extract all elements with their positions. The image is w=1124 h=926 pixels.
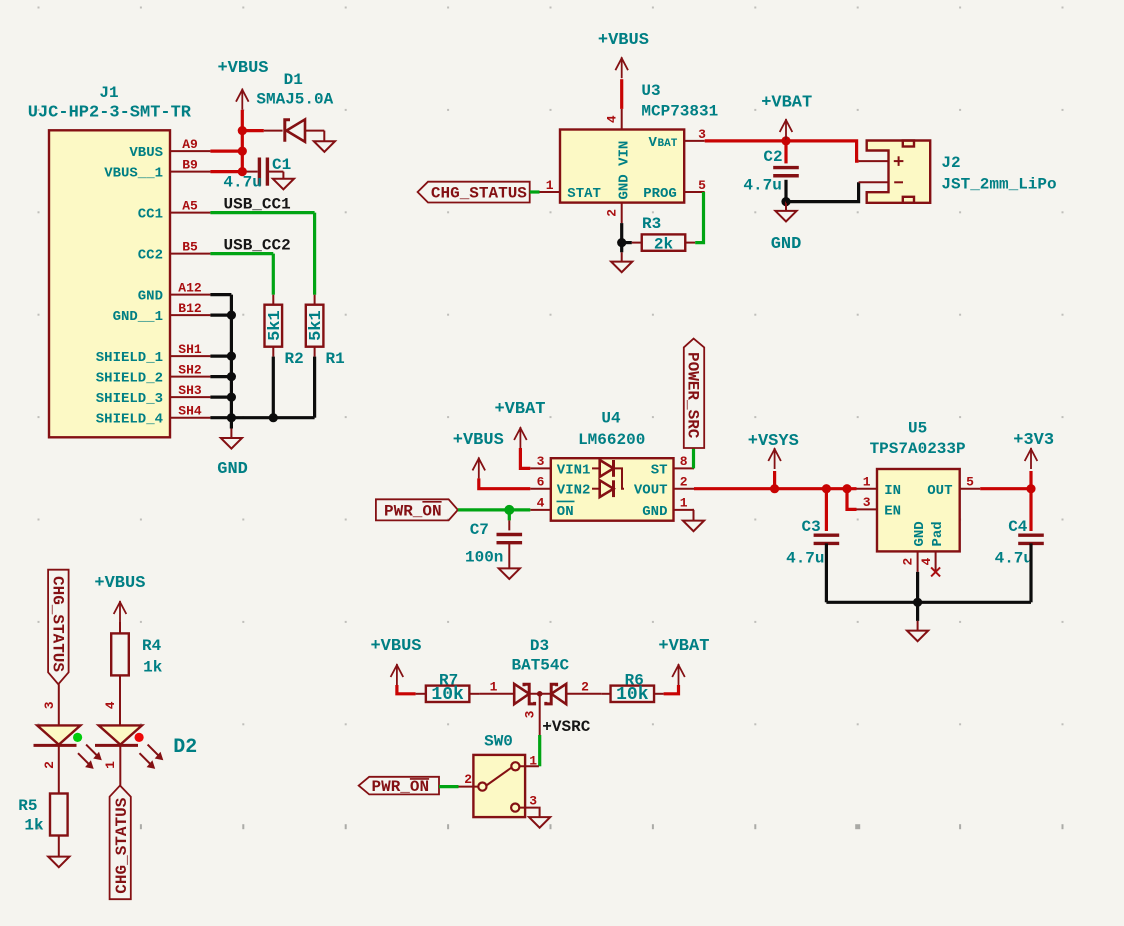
svg-text:SW0: SW0 xyxy=(484,733,513,751)
svg-text:+VBUS: +VBUS xyxy=(217,59,268,78)
svg-text:10k: 10k xyxy=(431,685,464,705)
svg-text:R1: R1 xyxy=(326,350,345,368)
svg-text:USB_CC1: USB_CC1 xyxy=(224,196,291,214)
svg-text:4.7u: 4.7u xyxy=(786,550,824,568)
svg-text:+VBAT: +VBAT xyxy=(494,400,545,419)
svg-text:D1: D1 xyxy=(284,71,303,89)
svg-text:VIN1: VIN1 xyxy=(557,462,591,478)
svg-text:R5: R5 xyxy=(18,797,37,815)
svg-text:4.7u: 4.7u xyxy=(223,174,261,192)
svg-text:2: 2 xyxy=(901,558,916,566)
svg-text:SMAJ5.0A: SMAJ5.0A xyxy=(256,91,333,109)
svg-text:Pad: Pad xyxy=(930,521,946,546)
svg-text:4: 4 xyxy=(919,558,934,566)
svg-text:8: 8 xyxy=(680,454,688,469)
svg-text:C4: C4 xyxy=(1008,518,1028,536)
svg-text:100n: 100n xyxy=(465,549,503,567)
svg-text:SH2: SH2 xyxy=(178,363,202,378)
svg-text:U4: U4 xyxy=(601,410,621,428)
svg-text:1: 1 xyxy=(103,761,118,769)
svg-text:A5: A5 xyxy=(182,199,198,214)
svg-text:PWR_ON: PWR_ON xyxy=(384,503,442,521)
svg-text:2: 2 xyxy=(464,772,472,787)
svg-text:LM66200: LM66200 xyxy=(578,431,645,449)
svg-text:C3: C3 xyxy=(802,518,821,536)
svg-text:GND: GND xyxy=(771,235,802,254)
svg-text:3: 3 xyxy=(537,454,545,469)
svg-text:SH4: SH4 xyxy=(178,404,202,419)
svg-text:4: 4 xyxy=(103,701,118,709)
svg-text:GND__1: GND__1 xyxy=(113,309,163,325)
svg-text:UJC-HP2-3-SMT-TR: UJC-HP2-3-SMT-TR xyxy=(28,104,192,123)
svg-text:CC1: CC1 xyxy=(138,207,163,223)
svg-text:GND VIN: GND VIN xyxy=(616,141,632,200)
svg-text:6: 6 xyxy=(537,474,545,489)
svg-text:3: 3 xyxy=(863,495,871,510)
svg-text:OUT: OUT xyxy=(927,483,952,499)
svg-text:CHG_STATUS: CHG_STATUS xyxy=(431,185,527,203)
svg-text:+VBAT: +VBAT xyxy=(761,93,812,112)
svg-text:1k: 1k xyxy=(24,817,44,835)
svg-text:1: 1 xyxy=(529,753,537,768)
svg-text:+VBUS: +VBUS xyxy=(453,431,504,450)
svg-text:STAT: STAT xyxy=(567,186,601,202)
svg-text:SHIELD_2: SHIELD_2 xyxy=(96,371,163,387)
svg-text:D3: D3 xyxy=(530,637,549,655)
svg-text:TPS7A0233P: TPS7A0233P xyxy=(870,440,966,458)
svg-text:3: 3 xyxy=(42,701,57,709)
svg-text:CHG_STATUS: CHG_STATUS xyxy=(48,576,66,672)
svg-text:J2: J2 xyxy=(941,154,960,172)
svg-text:POWER_SRC: POWER_SRC xyxy=(683,352,701,439)
svg-text:EN: EN xyxy=(884,504,901,520)
svg-text:2: 2 xyxy=(680,474,688,489)
svg-text:CC2: CC2 xyxy=(138,248,163,264)
svg-text:VIN2: VIN2 xyxy=(557,483,591,499)
svg-text:GND: GND xyxy=(912,521,928,546)
svg-text:2: 2 xyxy=(581,679,589,694)
svg-text:C1: C1 xyxy=(272,156,291,174)
svg-text:J1: J1 xyxy=(99,84,118,102)
svg-text:PROG: PROG xyxy=(643,186,677,202)
svg-text:SHIELD_3: SHIELD_3 xyxy=(96,391,163,407)
svg-text:D2: D2 xyxy=(173,736,197,759)
svg-text:3: 3 xyxy=(529,794,537,809)
svg-text:U5: U5 xyxy=(908,420,927,438)
svg-text:SHIELD_4: SHIELD_4 xyxy=(96,412,163,428)
svg-text:10k: 10k xyxy=(616,685,649,705)
svg-text:R4: R4 xyxy=(142,637,162,655)
svg-text:A9: A9 xyxy=(182,137,198,152)
svg-text:2k: 2k xyxy=(654,236,674,254)
svg-text:VBUS: VBUS xyxy=(129,145,163,161)
svg-text:1k: 1k xyxy=(143,659,163,677)
svg-text:+VBUS: +VBUS xyxy=(598,31,649,50)
svg-text:GND: GND xyxy=(138,289,163,305)
svg-text:3: 3 xyxy=(523,710,538,718)
svg-text:VBUS__1: VBUS__1 xyxy=(104,166,163,182)
svg-text:4: 4 xyxy=(537,496,545,511)
svg-text:A12: A12 xyxy=(178,281,202,296)
svg-text:V: V xyxy=(649,135,658,151)
svg-text:PWR_ON: PWR_ON xyxy=(372,778,430,796)
svg-text:1: 1 xyxy=(863,474,871,489)
svg-text:B9: B9 xyxy=(182,158,198,173)
svg-text:+VBUS: +VBUS xyxy=(94,574,145,593)
svg-text:MCP73831: MCP73831 xyxy=(641,102,718,120)
svg-text:4: 4 xyxy=(605,115,620,123)
svg-text:5k1: 5k1 xyxy=(266,310,285,341)
svg-text:C2: C2 xyxy=(763,148,782,166)
svg-text:1: 1 xyxy=(680,496,688,511)
svg-text:+VBAT: +VBAT xyxy=(658,637,709,656)
svg-text:VOUT: VOUT xyxy=(634,483,668,499)
svg-text:B12: B12 xyxy=(178,301,202,316)
svg-text:SHIELD_1: SHIELD_1 xyxy=(96,350,163,366)
svg-text:SH1: SH1 xyxy=(178,342,202,357)
svg-text:2: 2 xyxy=(605,209,620,217)
svg-text:R3: R3 xyxy=(642,215,661,233)
svg-text:R2: R2 xyxy=(285,350,304,368)
svg-text:+3V3: +3V3 xyxy=(1013,431,1054,450)
svg-text:IN: IN xyxy=(884,483,901,499)
svg-text:5: 5 xyxy=(698,178,706,193)
svg-text:+VBUS: +VBUS xyxy=(370,637,421,656)
svg-text:USB_CC2: USB_CC2 xyxy=(224,237,291,255)
svg-text:SH3: SH3 xyxy=(178,383,202,398)
svg-text:5: 5 xyxy=(966,474,974,489)
svg-text:BAT: BAT xyxy=(658,138,678,150)
svg-text:ON: ON xyxy=(557,504,574,520)
svg-text:GND: GND xyxy=(642,504,667,520)
svg-text:+VSRC: +VSRC xyxy=(542,718,590,736)
svg-text:4.7u: 4.7u xyxy=(743,177,781,195)
svg-text:2: 2 xyxy=(42,761,57,769)
svg-text:4.7u: 4.7u xyxy=(995,550,1033,568)
svg-text:+VSYS: +VSYS xyxy=(748,432,799,451)
svg-text:ST: ST xyxy=(651,462,668,478)
svg-text:1: 1 xyxy=(490,679,498,694)
svg-text:JST_2mm_LiPo: JST_2mm_LiPo xyxy=(941,176,1056,194)
svg-text:B5: B5 xyxy=(182,240,198,255)
svg-text:BAT54C: BAT54C xyxy=(511,656,569,674)
svg-text:U3: U3 xyxy=(641,82,660,100)
svg-text:GND: GND xyxy=(217,460,248,479)
svg-text:5k1: 5k1 xyxy=(307,310,326,341)
svg-text:C7: C7 xyxy=(470,521,489,539)
svg-text:1: 1 xyxy=(546,178,554,193)
svg-text:CHG_STATUS: CHG_STATUS xyxy=(113,797,131,893)
